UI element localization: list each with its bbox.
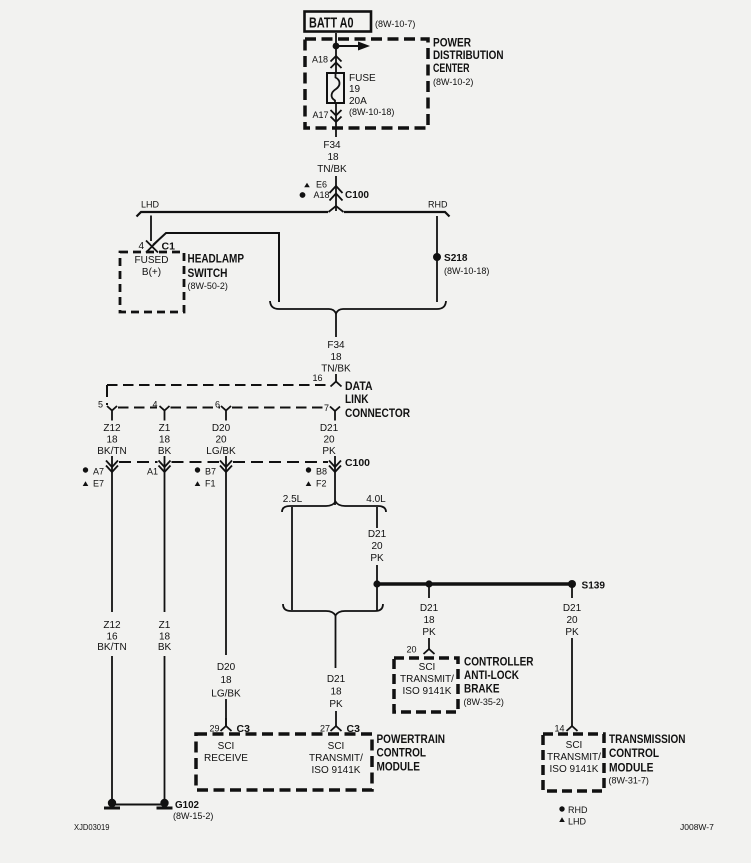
svg-text:18: 18 (330, 687, 342, 698)
svg-text:PK: PK (322, 446, 336, 457)
pin 20 symbol (424, 649, 435, 654)
svg-text:D21: D21 (420, 603, 439, 614)
pin 29 symbol (221, 718, 232, 731)
svg-text:J008W-7: J008W-7 (680, 822, 714, 832)
svg-text:TRANSMIT/: TRANSMIT/ (400, 674, 454, 685)
svg-text:16: 16 (106, 632, 118, 643)
DATA LINK CONNECTOR title (345, 381, 411, 420)
wire fuse to C100, circuit F34 (335, 103, 337, 137)
svg-text:CONTROLLER: CONTROLLER (464, 657, 534, 669)
svg-text:Z1: Z1 (159, 620, 171, 631)
marker dot A18 (RHD) (300, 192, 306, 198)
fuse value labels (349, 73, 394, 117)
svg-text:27: 27 (320, 724, 330, 734)
svg-text:A18: A18 (312, 55, 328, 65)
svg-text:A1: A1 (147, 467, 158, 477)
svg-text:TRANSMIT/: TRANSMIT/ (309, 753, 363, 764)
wire label D21 18 PK (CAB) (420, 603, 439, 638)
svg-text:D21: D21 (327, 674, 346, 685)
merge brace LHD/RHD wires (270, 301, 446, 314)
svg-text:20: 20 (371, 541, 383, 552)
svg-text:19: 19 (349, 84, 361, 95)
wire Z1 below C100 (164, 456, 166, 612)
POWER DISTRIBUTION CENTER title (433, 38, 504, 88)
wire Z12 below C100 (111, 456, 113, 612)
svg-text:16: 16 (312, 373, 322, 383)
wire bus to S218 (436, 216, 438, 302)
2.5L branch wire (291, 507, 293, 610)
svg-text:SCI: SCI (419, 662, 436, 673)
pin 16 connector symbol (331, 374, 342, 387)
svg-text:Z1: Z1 (159, 423, 171, 434)
ground tie wire (112, 804, 165, 806)
connector C100 dashed line (119, 461, 158, 463)
marker triangle E7 (LHD) (83, 481, 89, 486)
svg-text:BK: BK (158, 642, 172, 653)
svg-text:B7: B7 (205, 467, 216, 477)
wire D20 to PCM (225, 699, 227, 726)
svg-text:PK: PK (565, 627, 579, 638)
svg-text:RECEIVE: RECEIVE (204, 753, 248, 764)
svg-text:D21: D21 (368, 529, 387, 540)
svg-text:B8: B8 (316, 467, 327, 477)
wire Z1 to ground (164, 656, 166, 800)
svg-text:A7: A7 (93, 467, 104, 477)
wire label F34 18 TN/BK (317, 140, 347, 175)
svg-text:20: 20 (566, 615, 578, 626)
wire (335, 711, 337, 726)
svg-text:D21: D21 (563, 603, 582, 614)
svg-text:FUSE: FUSE (349, 73, 376, 84)
wire label D21 18 PK (PCM) (327, 674, 346, 710)
svg-text:(8W-10-7): (8W-10-7) (375, 19, 415, 29)
wire D20 below C100 (225, 456, 227, 655)
pin 27 symbol (331, 726, 342, 731)
svg-text:TN/BK: TN/BK (317, 164, 347, 175)
svg-text:CENTER: CENTER (433, 63, 470, 75)
battery feed box BATT A0 (305, 12, 372, 32)
wire label D21 20 PK (4.0L) (368, 529, 387, 564)
C100 chevrons wire 4 (329, 461, 341, 473)
svg-text:BK/TN: BK/TN (97, 446, 126, 457)
svg-text:2.5L: 2.5L (283, 494, 303, 505)
headlamp switch dashed box (120, 252, 184, 312)
splice bus to S139 (377, 582, 572, 585)
svg-text:CONTROL: CONTROL (377, 748, 427, 760)
terminal A17 chevrons (331, 110, 342, 122)
svg-text:Z12: Z12 (103, 620, 121, 631)
wire (571, 638, 573, 726)
svg-text:D21: D21 (320, 423, 339, 434)
svg-text:TRANSMISSION: TRANSMISSION (609, 734, 686, 746)
svg-text:LHD: LHD (141, 200, 160, 210)
svg-text:(8W-50-2): (8W-50-2) (188, 281, 228, 291)
svg-text:S139: S139 (582, 580, 606, 592)
wire Z12 to ground (111, 656, 113, 800)
svg-text:S218: S218 (444, 252, 468, 264)
svg-text:PK: PK (329, 699, 343, 710)
marker triangle F1 (195, 481, 201, 486)
svg-text:18: 18 (220, 675, 232, 686)
svg-text:(8W-35-2): (8W-35-2) (464, 697, 504, 707)
svg-text:ISO 9141K: ISO 9141K (403, 686, 452, 697)
marker dot A7 (RHD) (83, 467, 88, 472)
wire bus to C1 (150, 216, 152, 242)
junction dot CAB branch (425, 580, 432, 587)
pin 14 symbol (567, 726, 578, 731)
marker dot B7 (195, 467, 200, 472)
svg-text:SCI: SCI (218, 741, 235, 752)
svg-text:POWER: POWER (433, 38, 472, 50)
svg-text:5: 5 (98, 400, 103, 410)
svg-text:FUSED: FUSED (135, 255, 169, 266)
svg-text:G102: G102 (175, 799, 199, 811)
svg-text:(8W-31-7): (8W-31-7) (609, 776, 649, 786)
svg-text:(8W-10-18): (8W-10-18) (444, 266, 489, 276)
connector C100 chevrons (top) (330, 186, 343, 201)
svg-text:MODULE: MODULE (609, 763, 654, 775)
power distribution center dashed box (305, 39, 428, 128)
C100 chevrons wire 3 (220, 461, 232, 473)
svg-text:14: 14 (554, 724, 564, 734)
svg-text:18: 18 (423, 615, 435, 626)
junction dot 4.0L (373, 580, 380, 587)
svg-text:C100: C100 (345, 457, 370, 469)
svg-text:A17: A17 (312, 110, 328, 120)
marker triangle E6 (LHD) (304, 183, 310, 188)
wire label Z12 16 BK/TN (97, 620, 126, 653)
svg-text:D20: D20 (217, 662, 236, 673)
ground G102 right symbol (160, 799, 168, 807)
svg-text:PK: PK (370, 553, 384, 564)
legend dot RHD (559, 806, 564, 811)
fuse 19 20A (327, 73, 344, 103)
svg-text:(8W-10-2): (8W-10-2) (433, 77, 473, 87)
svg-text:LG/BK: LG/BK (211, 689, 241, 700)
svg-text:ISO 9141K: ISO 9141K (312, 765, 361, 776)
svg-text:E7: E7 (93, 479, 104, 489)
svg-text:DATA: DATA (345, 381, 373, 393)
wire BATT A0 to fuse (335, 33, 337, 73)
ground G102 left symbol (108, 799, 116, 807)
svg-text:CONTROL: CONTROL (609, 748, 659, 760)
svg-text:TRANSMIT/: TRANSMIT/ (547, 752, 601, 763)
svg-text:BK/TN: BK/TN (97, 642, 126, 653)
svg-text:PK: PK (422, 627, 436, 638)
svg-text:F34: F34 (327, 340, 345, 351)
svg-text:29: 29 (209, 724, 219, 734)
svg-text:SCI: SCI (328, 741, 345, 752)
wire S139 to TCM (571, 584, 573, 598)
svg-text:(8W-15-2): (8W-15-2) (173, 811, 213, 821)
svg-text:BRAKE: BRAKE (464, 684, 500, 696)
C100 bump on bus (329, 206, 344, 212)
LHD/RHD bus wire (137, 212, 450, 217)
wire brace to DLC, F34 (335, 314, 337, 338)
svg-text:D20: D20 (212, 423, 231, 434)
4.0L branch wire (376, 507, 378, 528)
wire label D20 18 LG/BK (211, 662, 241, 700)
C100 chevrons wire 2 (159, 461, 171, 473)
svg-text:LHD: LHD (568, 817, 587, 827)
svg-text:POWERTRAIN: POWERTRAIN (377, 734, 446, 746)
svg-text:18: 18 (106, 435, 118, 446)
controller anti-lock brake dashed box (394, 658, 458, 712)
svg-text:4.0L: 4.0L (366, 494, 386, 505)
svg-text:C100: C100 (345, 189, 369, 201)
merge brace 2.5L/4.0L (283, 604, 383, 616)
svg-text:LG/BK: LG/BK (206, 446, 236, 457)
svg-text:MODULE: MODULE (377, 762, 421, 774)
svg-text:DISTRIBUTION: DISTRIBUTION (433, 50, 504, 62)
wire label Z1 18 BK (158, 620, 172, 653)
arrow to other circuits (336, 45, 359, 47)
transmission control module dashed box (543, 734, 604, 791)
branch wire from C1 to merge (153, 233, 279, 302)
svg-text:20: 20 (215, 435, 227, 446)
svg-text:RHD: RHD (428, 200, 448, 210)
svg-text:20: 20 (323, 435, 335, 446)
svg-text:18: 18 (159, 435, 171, 446)
C100 chevrons wire 1 (106, 461, 118, 473)
svg-text:4: 4 (152, 400, 157, 410)
svg-text:F2: F2 (316, 479, 327, 489)
wire (428, 638, 430, 649)
svg-text:Z12: Z12 (103, 423, 121, 434)
wire label Z12 18 BK/TN (97, 423, 338, 457)
svg-text:F34: F34 (323, 140, 341, 151)
svg-text:18: 18 (327, 152, 339, 163)
svg-text:20: 20 (406, 645, 416, 655)
terminal A18 chevrons (331, 56, 342, 68)
svg-text:BK: BK (158, 446, 172, 457)
svg-text:ANTI-LOCK: ANTI-LOCK (464, 670, 520, 682)
svg-text:E6: E6 (316, 180, 327, 190)
wire D21 between pin7 and C100 (334, 456, 336, 505)
splice S218 (433, 253, 441, 261)
split brace (282, 502, 386, 513)
svg-text:B(+): B(+) (142, 267, 161, 278)
data link connector dashed box (107, 384, 326, 386)
svg-text:ISO 9141K: ISO 9141K (550, 764, 599, 775)
svg-text:SWITCH: SWITCH (188, 268, 228, 280)
marker dot B8 (306, 467, 311, 472)
svg-text:18: 18 (159, 632, 171, 643)
svg-text:18: 18 (330, 352, 342, 363)
legend triangle LHD (559, 817, 565, 822)
wire label D21 20 PK (TCM) (563, 603, 582, 638)
svg-text:HEADLAMP: HEADLAMP (188, 254, 245, 266)
powertrain control module dashed box (196, 734, 372, 790)
wire to PCM pin 27 (335, 616, 337, 669)
svg-text:CONNECTOR: CONNECTOR (345, 408, 411, 420)
svg-text:(8W-10-18): (8W-10-18) (349, 107, 394, 117)
junction node in PDC (333, 43, 340, 50)
svg-text:F1: F1 (205, 479, 216, 489)
connector C1 X symbol (146, 241, 158, 253)
svg-text:7: 7 (324, 403, 329, 413)
splice S139 (568, 580, 576, 588)
svg-text:4: 4 (138, 241, 144, 252)
wire into C100 (335, 176, 337, 211)
svg-text:20A: 20A (349, 96, 367, 107)
wire junction to CAB (428, 584, 430, 598)
svg-text:LINK: LINK (345, 394, 369, 406)
svg-text:BATT A0: BATT A0 (309, 16, 354, 32)
svg-text:A18: A18 (314, 190, 330, 200)
marker triangle F2 (306, 481, 312, 486)
svg-text:TN/BK: TN/BK (321, 364, 351, 375)
wire 4.0L to junction (376, 565, 378, 610)
svg-text:SCI: SCI (566, 740, 583, 751)
svg-text:RHD: RHD (568, 805, 588, 815)
wire label F34 18 TN/BK (321, 340, 351, 375)
svg-text:XJD03019: XJD03019 (74, 822, 110, 832)
svg-text:6: 6 (215, 400, 220, 410)
